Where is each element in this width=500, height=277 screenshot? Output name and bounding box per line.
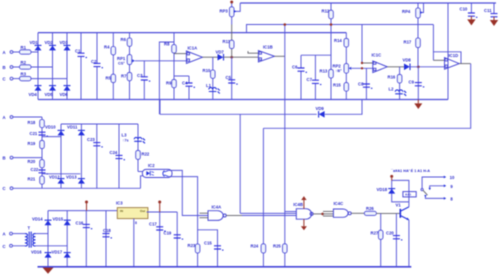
svg-text:R19: R19 (28, 141, 36, 146)
wire IC4C output (351, 212, 364, 214)
svg-text:L3: L3 (122, 133, 128, 138)
svg-text:R6: R6 (121, 37, 127, 42)
wire column IC1C minus (361, 25, 363, 64)
svg-text:VD8: VD8 (403, 57, 412, 62)
wire gnd bus mid (38, 99, 448, 101)
svg-text:IC2: IC2 (148, 163, 155, 168)
svg-text:C20: C20 (386, 231, 394, 236)
svg-text:R26: R26 (366, 206, 374, 211)
wire rail IC3 right (147, 211, 178, 213)
svg-text:R17: R17 (404, 39, 412, 44)
wire B2 (13, 157, 42, 159)
wire top bus section1 (38, 32, 346, 34)
wire secondary top (36, 233, 49, 235)
svg-text:10: 10 (450, 175, 455, 180)
svg-text:IC4A: IC4A (212, 205, 222, 210)
svg-text:C9: C9 (409, 80, 415, 85)
ground C11 (493, 17, 495, 20)
wire V1 collector (408, 202, 410, 207)
svg-text:L2: L2 (389, 87, 395, 92)
svg-text:VD4: VD4 (29, 92, 38, 97)
svg-text:B: B (3, 155, 6, 160)
wire feedback IC1A (159, 42, 174, 114)
svg-text:R23: R23 (188, 243, 196, 248)
svg-text:R27: R27 (371, 230, 379, 235)
svg-text:VD18: VD18 (377, 187, 388, 192)
wire VD7 to IC1B (224, 56, 259, 58)
svg-text:C19: C19 (164, 231, 172, 236)
wire IC1D out down to y128 (263, 64, 470, 129)
wire bottom bus (38, 266, 412, 268)
svg-text:R16: R16 (388, 74, 396, 79)
wire B (13, 66, 20, 68)
svg-text:↑B°: ↑B° (336, 69, 343, 73)
svg-text:IC1B: IC1B (263, 44, 273, 49)
power arrow IC4B bottom (303, 219, 305, 226)
wire top rail (240, 2, 496, 4)
wire contact to terminal 10 (422, 177, 444, 188)
wire secondary bottom (36, 245, 68, 247)
svg-text:C18: C18 (103, 228, 111, 233)
svg-text:C: C (3, 244, 6, 249)
svg-text:IN: IN (120, 209, 123, 213)
svg-text:RP1: RP1 (117, 56, 126, 61)
svg-text:R10: R10 (203, 68, 211, 73)
wire C2 (13, 187, 42, 189)
wire contact to terminal 8 (425, 196, 444, 199)
svg-text:VD5: VD5 (45, 92, 54, 97)
svg-text:VD3: VD3 (60, 40, 69, 45)
svg-text:R15: R15 (333, 83, 341, 88)
svg-text:VD17: VD17 (52, 249, 63, 254)
node junction R12 (330, 23, 333, 26)
power flag right (158, 201, 161, 204)
svg-text:Out: Out (140, 209, 145, 213)
svg-text:C: C (3, 186, 6, 191)
wire IC1B output (275, 55, 285, 57)
svg-text:C17: C17 (149, 222, 157, 227)
svg-text:R4: R4 (104, 44, 110, 49)
svg-text:RP3: RP3 (220, 8, 229, 13)
power arrow IC4B top (303, 200, 305, 209)
node junction VD7 (230, 56, 233, 59)
wire column IC1B out long (284, 25, 286, 267)
svg-text:IC4C: IC4C (334, 201, 344, 206)
wire rail IC3 left (48, 210, 118, 212)
svg-text:C7: C7 (307, 77, 313, 82)
svg-text:IC4B: IC4B (293, 202, 303, 207)
wire IC2 out bottom (169, 177, 198, 267)
wire contact to terminal 9 (430, 186, 445, 190)
wire RP1 wiper (135, 60, 187, 62)
svg-text:R13: R13 (320, 69, 328, 74)
svg-text:VD9: VD9 (316, 106, 325, 111)
svg-text:IC1A: IC1A (188, 46, 198, 51)
svg-text:VD13: VD13 (66, 175, 77, 180)
svg-text:RP4: RP4 (402, 9, 411, 14)
svg-text:C21: C21 (30, 131, 38, 136)
svg-text:R22: R22 (142, 151, 150, 156)
svg-text:C10: C10 (460, 7, 468, 12)
wire IC4C inputs (323, 210, 333, 212)
power flag relay (390, 175, 393, 178)
svg-text:C22: C22 (31, 167, 39, 172)
svg-text:R2: R2 (21, 60, 27, 65)
svg-text:VD2: VD2 (45, 40, 54, 45)
ground main (43, 268, 54, 274)
wire rail2 top (61, 123, 138, 125)
svg-text:A: A (3, 232, 6, 237)
wire relay loop (392, 180, 409, 202)
power flag RP3 (230, 1, 233, 4)
svg-text:C23: C23 (87, 137, 95, 142)
svg-text:R1: R1 (21, 45, 27, 50)
svg-text:VD1: VD1 (30, 40, 39, 45)
svg-text:VD6: VD6 (60, 92, 69, 97)
svg-text:VD10: VD10 (45, 125, 56, 130)
wire phase A to bridge (42, 136, 61, 138)
svg-text:VD7: VD7 (216, 50, 225, 55)
wire column VD11 (80, 124, 82, 188)
svg-text:T: T (28, 225, 31, 230)
wire IC1B minus stub (248, 51, 258, 53)
node junction IC1B top (284, 23, 287, 26)
svg-text:IC1C: IC1C (372, 53, 382, 58)
svg-text:A: A (3, 50, 6, 55)
svg-text:¯a¥A1 HA′ É 1 A1 H-A: ¯a¥A1 HA′ É 1 A1 H-A (390, 168, 430, 173)
wire mid rail y24.5 (247, 25, 434, 33)
power flag left (85, 201, 88, 204)
wire IC4B output (313, 213, 323, 215)
svg-text:↑7s: ↑7s (123, 138, 129, 142)
wire gate bus lines (242, 215, 296, 217)
svg-text:R8: R8 (164, 42, 170, 47)
svg-text:C15: C15 (204, 241, 212, 246)
svg-text:VD11: VD11 (67, 125, 78, 130)
wire IC2 out top (169, 170, 208, 215)
svg-text:C11: C11 (484, 8, 492, 13)
relay coil KA1 (403, 192, 416, 197)
svg-text:KA1: KA1 (405, 193, 411, 197)
wire RP2 wiper (351, 67, 373, 69)
wire column VD15 (66, 211, 68, 267)
ground mid (417, 100, 419, 104)
svg-text:R20: R20 (28, 159, 36, 164)
wire IC3 gnd pin (133, 219, 135, 267)
svg-text:V1: V1 (396, 203, 402, 208)
svg-text:R25: R25 (273, 244, 281, 249)
wire A2 (13, 116, 42, 118)
svg-text:R3: R3 (21, 72, 27, 77)
svg-text:C24: C24 (110, 150, 118, 155)
wire IC1D output (459, 63, 471, 65)
wire column VD14 (47, 211, 49, 267)
svg-text:R18: R18 (28, 120, 36, 125)
wire IC1A minus input (174, 53, 186, 55)
svg-text:R14: R14 (334, 38, 342, 43)
wire column to IC4B (239, 114, 241, 213)
wire C6 C7 top rail (301, 54, 331, 56)
svg-text:CS°: CS° (118, 62, 125, 66)
ground C10 (470, 16, 472, 19)
wire C (13, 78, 20, 80)
svg-text:C16: C16 (76, 221, 84, 226)
wire IC4A output (226, 215, 242, 217)
svg-text:R21: R21 (28, 176, 36, 181)
wire column VD2 (52, 33, 54, 100)
svg-text:IC3: IC3 (116, 201, 123, 206)
svg-text:R9: R9 (166, 81, 172, 86)
wire IC4A inputs (200, 212, 209, 214)
wire IC1A output (203, 56, 218, 58)
svg-text:RP2: RP2 (333, 63, 342, 68)
wire VD9 line (160, 113, 317, 115)
svg-text:VD15: VD15 (53, 217, 64, 222)
svg-text:C: C (3, 77, 6, 82)
svg-text:B: B (3, 65, 6, 70)
svg-text:VD14: VD14 (32, 217, 43, 222)
wire VD8 to IC1D (410, 66, 445, 68)
wire phase C to bridge (42, 173, 80, 175)
wire column VD1 (37, 33, 39, 100)
wire column VD10 (60, 124, 62, 188)
wire IC1D feedback (432, 25, 434, 61)
wire column VD3 (66, 33, 68, 100)
svg-text:A: A (3, 115, 6, 120)
wire rail2 bottom (42, 187, 141, 189)
wire R26 to base (376, 212, 400, 214)
svg-text:VD16: VD16 (31, 249, 42, 254)
wire IC2 input pins (138, 171, 143, 173)
wire column IC1D vertical (447, 3, 449, 100)
wire V1 emitter (408, 220, 410, 267)
node junction IC1C (361, 62, 363, 64)
wire IC1C output (387, 66, 404, 68)
svg-text:R7: R7 (121, 74, 127, 79)
svg-text:C6: C6 (292, 65, 298, 70)
node junction VD8 (417, 66, 420, 69)
svg-text:8: 8 (135, 221, 137, 225)
svg-text:R24: R24 (251, 244, 259, 249)
wire R9 C4 top (174, 75, 189, 77)
svg-text:IC1D: IC1D (449, 53, 459, 58)
node junction IC4B out (321, 213, 324, 216)
relay contact pole (421, 189, 423, 191)
wire A (13, 51, 20, 53)
